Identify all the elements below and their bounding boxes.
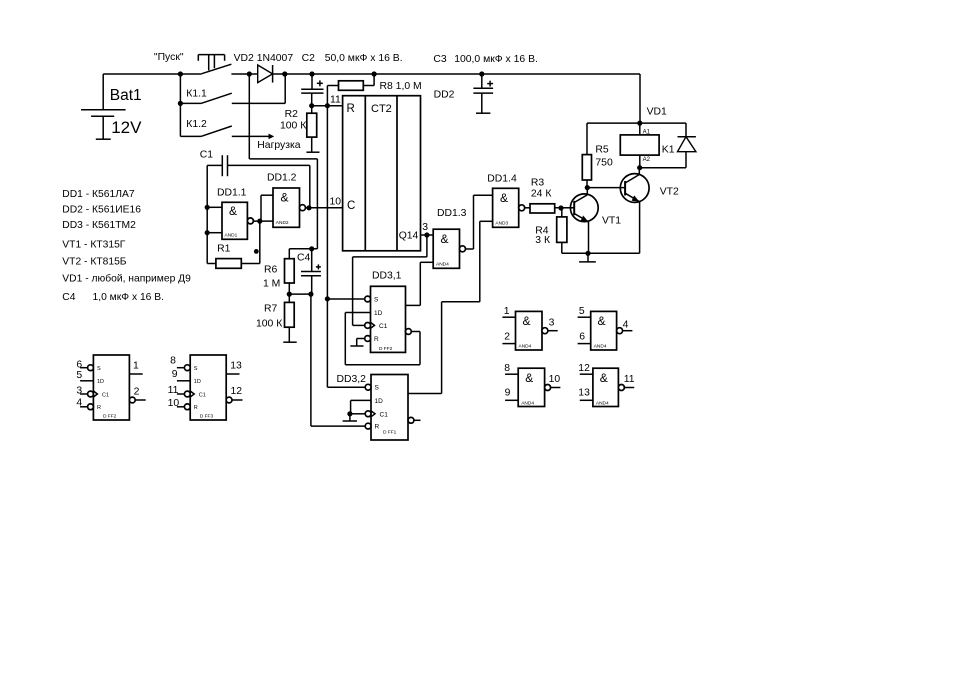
wire DD3.2 R xyxy=(311,425,365,427)
svg-text:1D: 1D xyxy=(97,379,104,385)
component list text xyxy=(62,189,191,303)
transistor VT1 xyxy=(561,188,621,254)
svg-text:24 К: 24 К xyxy=(531,189,552,200)
svg-text:AND1: AND1 xyxy=(225,233,238,239)
svg-text:D FF2: D FF2 xyxy=(379,346,393,352)
node VT1 collector / R5 / VT2 base junction xyxy=(585,185,590,190)
svg-text:DD1.4: DD1.4 xyxy=(487,174,517,185)
capacitor C2 xyxy=(301,53,402,106)
svg-text:D FF3: D FF3 xyxy=(200,413,214,419)
svg-text:R2: R2 xyxy=(285,109,299,120)
svg-text:13: 13 xyxy=(578,388,590,399)
svg-text:C4: C4 xyxy=(297,253,311,264)
node VT1 base / R3 / R4 junction xyxy=(558,205,563,210)
svg-text:AND4: AND4 xyxy=(594,344,607,350)
svg-text:750: 750 xyxy=(595,158,613,169)
svg-text:2: 2 xyxy=(504,332,510,343)
wire DD1.2 out to C input xyxy=(306,207,343,209)
svg-text:C3: C3 xyxy=(433,54,447,65)
svg-text:A1: A1 xyxy=(643,129,651,135)
svg-text:&: & xyxy=(441,232,449,246)
svg-text:12: 12 xyxy=(231,386,243,397)
svg-text:S: S xyxy=(374,297,379,304)
svg-text:10: 10 xyxy=(168,398,180,409)
svg-text:6: 6 xyxy=(579,332,585,343)
wire DD3.2 Q to DD1.4 in2 xyxy=(408,221,480,393)
svg-text:8: 8 xyxy=(170,356,176,367)
svg-text:R3: R3 xyxy=(531,178,545,189)
svg-text:AND3: AND3 xyxy=(495,221,508,227)
node R8 xyxy=(372,71,377,76)
spare gate 1-2-3 xyxy=(502,306,557,350)
svg-text:&: & xyxy=(281,191,289,205)
resistor R5 xyxy=(582,123,613,188)
resistor R6 xyxy=(263,249,294,294)
resistor R3 xyxy=(530,178,574,214)
wire load-branch jog xyxy=(289,248,317,250)
svg-text:&: & xyxy=(229,204,237,218)
svg-text:Bat1: Bat1 xyxy=(110,87,142,104)
capacitor C1 xyxy=(200,150,310,208)
wire R6/C4/R7 node xyxy=(288,293,311,295)
wire DD3.2 1D/C1 tie xyxy=(347,400,371,416)
resistor R4 xyxy=(535,208,567,253)
svg-text:&: & xyxy=(598,314,606,328)
diode VD1 xyxy=(678,123,696,168)
svg-text:S: S xyxy=(194,366,198,372)
svg-text:R: R xyxy=(374,336,379,343)
svg-text:2: 2 xyxy=(134,387,140,398)
wire Q14 to DD3.1 C1 xyxy=(353,235,427,325)
svg-text:5: 5 xyxy=(76,370,82,381)
svg-text:1: 1 xyxy=(504,306,510,317)
wire reset line vertical xyxy=(326,106,328,388)
svg-text:6: 6 xyxy=(76,360,82,371)
svg-text:1D: 1D xyxy=(374,310,383,317)
svg-text:Нагрузка: Нагрузка xyxy=(257,140,300,151)
gate DD1.1 xyxy=(205,165,254,263)
svg-text:VT1: VT1 xyxy=(602,215,621,226)
svg-text:R: R xyxy=(194,405,198,411)
wire DD3.2 S xyxy=(327,386,365,388)
svg-text:AND4: AND4 xyxy=(436,262,449,268)
svg-text:A2: A2 xyxy=(643,157,651,163)
node rail/K1 branch xyxy=(178,71,183,76)
svg-text:C: C xyxy=(347,200,355,212)
svg-text:3: 3 xyxy=(422,222,428,233)
svg-text:C1: C1 xyxy=(379,323,388,330)
svg-text:VD2 1N4007: VD2 1N4007 xyxy=(234,53,294,64)
node C3 xyxy=(479,71,484,76)
svg-text:1: 1 xyxy=(133,360,139,371)
svg-text:VT1 - КТ315Г: VT1 - КТ315Г xyxy=(62,239,126,250)
wire DD3.1 C1 xyxy=(353,324,365,326)
spare flip-flop D FF3 xyxy=(168,355,243,420)
node Q14 / pin 3 junction xyxy=(424,232,429,237)
svg-text:3: 3 xyxy=(76,385,82,396)
svg-text:1D: 1D xyxy=(375,398,384,405)
wire rail corner down to relay xyxy=(639,74,641,123)
svg-text:R: R xyxy=(347,103,355,115)
svg-text:3: 3 xyxy=(549,318,555,329)
svg-text:4: 4 xyxy=(623,319,629,330)
spare gate 5-6-4 xyxy=(578,306,633,350)
relay contact K1.2 xyxy=(180,119,300,151)
resistor R1 xyxy=(207,221,260,268)
svg-text:DD1.3: DD1.3 xyxy=(437,208,467,219)
gate DD1.3 xyxy=(420,208,466,268)
svg-text:R5: R5 xyxy=(595,145,609,156)
svg-text:VT2 - КТ815Б: VT2 - КТ815Б xyxy=(62,257,127,268)
svg-text:К1.1: К1.1 xyxy=(186,89,207,100)
svg-text:C4: C4 xyxy=(62,292,75,303)
svg-text:VD1 - любой, например Д9: VD1 - любой, например Д9 xyxy=(62,273,191,285)
pushbutton "Пуск" xyxy=(154,52,232,74)
resistor R2 xyxy=(280,106,320,153)
wire DD3.2 R line xyxy=(310,294,312,426)
svg-text:11: 11 xyxy=(624,374,635,385)
svg-text:R8 1,0 M: R8 1,0 M xyxy=(380,81,422,92)
spare gate 12-13-11 xyxy=(578,363,635,406)
svg-text:DD3,2: DD3,2 xyxy=(337,374,367,385)
svg-text:S: S xyxy=(375,385,380,392)
relay coil K1 xyxy=(620,123,674,168)
svg-text:&: & xyxy=(500,191,508,205)
svg-text:11: 11 xyxy=(168,385,179,396)
flip-flop DD3.2 xyxy=(337,374,421,440)
svg-text:C1: C1 xyxy=(200,150,214,161)
svg-text:Q14: Q14 xyxy=(399,231,419,242)
svg-text:12V: 12V xyxy=(111,118,142,137)
wire top rail left xyxy=(103,73,202,75)
spare flip-flop D FF2 xyxy=(76,355,145,420)
svg-text:К1.2: К1.2 xyxy=(186,119,207,130)
svg-text:D FF2: D FF2 xyxy=(103,413,117,419)
svg-text:R: R xyxy=(97,405,101,411)
transistor VT2 xyxy=(620,168,679,254)
svg-text:5: 5 xyxy=(579,306,585,317)
svg-text:9: 9 xyxy=(505,388,511,399)
wire reset node xyxy=(312,105,343,107)
svg-text:C1: C1 xyxy=(380,411,389,418)
wire top rail right xyxy=(273,73,640,75)
node relay A2 / VT2 collector / VD1 junction xyxy=(637,165,642,170)
stray junction dot xyxy=(254,249,259,254)
wire VT2 base xyxy=(587,187,625,189)
svg-text:"Пуск": "Пуск" xyxy=(154,52,184,63)
svg-text:1D: 1D xyxy=(194,379,201,385)
svg-text:R: R xyxy=(375,424,380,431)
svg-text:C2: C2 xyxy=(302,53,316,64)
gate DD1.4 xyxy=(480,174,525,228)
svg-text:DD1 - К561ЛА7: DD1 - К561ЛА7 xyxy=(62,189,135,200)
svg-text:CT2: CT2 xyxy=(371,103,392,115)
svg-text:C1: C1 xyxy=(199,392,206,398)
svg-text:8: 8 xyxy=(504,363,510,374)
svg-text:K1: K1 xyxy=(662,145,675,156)
diode VD2 xyxy=(234,53,294,83)
capacitor C3 xyxy=(433,54,538,113)
svg-text:AND4: AND4 xyxy=(519,344,532,350)
svg-text:R6: R6 xyxy=(264,265,278,276)
wire V+ branch to timing network xyxy=(249,74,317,249)
wire DD1.3 out to DD1.4 in1 xyxy=(466,195,493,249)
svg-text:AND4: AND4 xyxy=(596,400,609,406)
svg-text:VT2: VT2 xyxy=(660,187,679,198)
ground xyxy=(579,253,596,262)
svg-text:S: S xyxy=(97,366,101,372)
svg-text:DD1.1: DD1.1 xyxy=(217,188,247,199)
wire VD1 bottom xyxy=(640,167,686,169)
resistor R8 xyxy=(327,74,421,106)
wire R5/VD1 top bus xyxy=(587,122,686,124)
svg-text:DD1.2: DD1.2 xyxy=(267,173,297,184)
svg-text:R7: R7 xyxy=(264,304,278,315)
svg-text:3 К: 3 К xyxy=(535,235,550,246)
svg-text:4: 4 xyxy=(76,398,82,409)
svg-text:AND2: AND2 xyxy=(276,220,289,226)
wire rail to diode xyxy=(231,73,257,75)
svg-text:DD3,1: DD3,1 xyxy=(372,271,402,282)
svg-text:11: 11 xyxy=(330,95,341,106)
capacitor C4 xyxy=(297,249,321,294)
wire DD1.4 out to R3 xyxy=(525,207,530,209)
wire DD3.1 S xyxy=(327,298,364,300)
svg-text:R1: R1 xyxy=(217,244,231,255)
ground DD3.2 xyxy=(343,414,357,421)
svg-text:13: 13 xyxy=(230,360,242,371)
svg-text:C1: C1 xyxy=(102,392,109,398)
svg-text:10: 10 xyxy=(330,196,342,207)
svg-text:AND4: AND4 xyxy=(521,400,534,406)
svg-text:100,0 мкФ x 16 B.: 100,0 мкФ x 16 B. xyxy=(454,54,538,65)
node C2 xyxy=(309,71,314,76)
svg-text:9: 9 xyxy=(172,369,178,380)
wire DD3.1 1D feedback xyxy=(345,313,420,365)
counter DD2 CT2 box xyxy=(343,96,421,251)
resistor R7 xyxy=(256,294,297,342)
ground DD3.1 R xyxy=(350,339,364,347)
relay contact K1.1 xyxy=(178,74,285,136)
svg-text:10: 10 xyxy=(549,374,561,385)
battery Bat1 xyxy=(81,74,142,139)
svg-text:12: 12 xyxy=(578,363,590,374)
node K1.1 right xyxy=(282,71,287,76)
svg-text:DD3 - К561ТМ2: DD3 - К561ТМ2 xyxy=(62,220,136,231)
wire emitter ground rail xyxy=(562,252,640,254)
svg-text:VD1: VD1 xyxy=(647,107,667,118)
svg-text:&: & xyxy=(523,314,531,328)
wire DD3.1 Q to DD1.3 in2 xyxy=(406,262,421,305)
svg-text:50,0 мкФ x 16 B.: 50,0 мкФ x 16 B. xyxy=(325,53,403,64)
svg-text:1 M: 1 M xyxy=(263,279,280,290)
gate DD1.2 xyxy=(253,173,305,228)
spare gate 8-9-10 xyxy=(504,363,560,406)
svg-text:1,0 мкФ x 16 B.: 1,0 мкФ x 16 B. xyxy=(93,292,165,303)
svg-text:DD2: DD2 xyxy=(434,90,455,101)
svg-text:100 К: 100 К xyxy=(256,319,282,330)
svg-text:100 К: 100 К xyxy=(280,121,306,132)
svg-text:DD2 - К561ИЕ16: DD2 - К561ИЕ16 xyxy=(62,205,141,216)
svg-text:&: & xyxy=(600,371,608,385)
flip-flop DD3.1 xyxy=(365,271,412,353)
svg-text:D FF1: D FF1 xyxy=(383,430,397,436)
svg-text:&: & xyxy=(525,371,533,385)
node load branch xyxy=(247,71,252,76)
